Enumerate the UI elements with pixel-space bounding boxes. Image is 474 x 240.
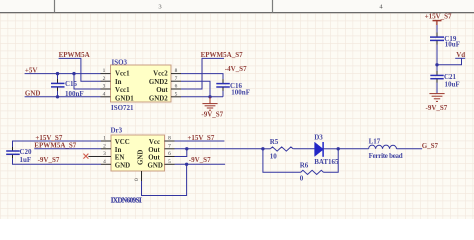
svg-text:GND: GND: [25, 89, 41, 97]
svg-text:Ferrite bead: Ferrite bead: [369, 152, 403, 160]
IC ISO3 body: [111, 65, 172, 102]
wire pin6 join: [175, 149, 187, 157]
svg-text:-4V_S7: -4V_S7: [225, 65, 247, 73]
junction Vd branch: [435, 63, 438, 66]
ISO3 pin 1: [101, 68, 111, 74]
wire pin8 to C16: [181, 74, 223, 80]
svg-text:Dr3: Dr3: [111, 127, 123, 135]
ISO3 pin 6: [171, 84, 181, 90]
wire pin8 +15V_S7: [175, 140, 225, 142]
svg-text:8: 8: [168, 136, 171, 142]
wire pad to -9V rail: [142, 164, 187, 195]
svg-text:-9V_S7: -9V_S7: [426, 104, 448, 112]
wire +5V to pin3: [74, 74, 101, 89]
Dr3 pin 5: [165, 159, 175, 165]
junction D3/R6 merge: [337, 147, 340, 150]
svg-text:5: 5: [175, 91, 178, 97]
Dr3 pin 4: [101, 159, 111, 165]
svg-text:In: In: [115, 79, 122, 86]
svg-text:8: 8: [175, 68, 178, 74]
svg-text:EPWM5A_S7: EPWM5A_S7: [201, 51, 244, 59]
power bar +15V_S7: [433, 21, 442, 25]
svg-text:Out: Out: [148, 155, 160, 162]
svg-text:Out: Out: [148, 147, 160, 154]
svg-text:1: 1: [103, 136, 106, 142]
capacitor C16: [216, 79, 230, 97]
wire pin7 down to gnd rail: [181, 81, 210, 97]
capacitor C21: [430, 65, 443, 93]
svg-text:10uF: 10uF: [445, 80, 460, 88]
svg-text:IXDN609SI: IXDN609SI: [111, 196, 142, 204]
svg-text:6: 6: [175, 84, 178, 90]
Dr3 pin 6: [165, 151, 175, 157]
svg-text:6: 6: [168, 151, 171, 157]
svg-text:GND1: GND1: [115, 96, 134, 103]
Dr3 pin 0 pad: [134, 171, 142, 181]
capacitor C15: [51, 74, 65, 97]
wire pin6 to EPWM5A_S7: [181, 58, 224, 89]
junction R5/R6 split: [261, 147, 264, 150]
wire pin7 output long run: [175, 148, 263, 150]
svg-text:VCC: VCC: [115, 139, 130, 146]
junction +5V pin3 branch: [72, 72, 75, 75]
svg-text:Vd: Vd: [456, 51, 465, 59]
svg-text:2: 2: [103, 76, 106, 82]
svg-text:0: 0: [134, 178, 140, 181]
ISO3 pin 2: [101, 76, 111, 82]
svg-text:5: 5: [168, 159, 171, 165]
Dr3 pin 3: [101, 151, 111, 157]
junction C15 bottom: [56, 95, 59, 98]
svg-text:10: 10: [270, 153, 278, 161]
svg-text:Vcc1: Vcc1: [115, 87, 130, 94]
svg-text:D3: D3: [314, 134, 323, 142]
svg-text:GND: GND: [138, 150, 145, 165]
power ground -9V_S7 (ISO3): [202, 97, 217, 110]
svg-text:-9V_S7: -9V_S7: [38, 156, 60, 164]
svg-text:Vcc2: Vcc2: [153, 71, 168, 78]
svg-text:EPWM5A: EPWM5A: [59, 51, 90, 59]
svg-text:GND: GND: [147, 162, 162, 169]
resistor R6: [263, 149, 338, 175]
svg-text:ISO721: ISO721: [111, 104, 134, 112]
Dr3 pin 7: [165, 143, 175, 149]
svg-text:7: 7: [175, 76, 178, 82]
svg-text:EPWM5A_S7: EPWM5A_S7: [34, 141, 77, 149]
Dr3 pin 8: [165, 136, 175, 142]
svg-text:C15: C15: [65, 80, 78, 88]
svg-text:C20: C20: [20, 148, 33, 156]
svg-text:+15V_S7: +15V_S7: [425, 13, 452, 21]
ISO3 pin 3: [101, 84, 111, 90]
svg-text:GND2: GND2: [149, 79, 168, 86]
svg-text:L17: L17: [369, 138, 381, 146]
diode D3: [315, 142, 339, 157]
wire pin5 gnd rail: [181, 96, 223, 98]
svg-text:3: 3: [103, 84, 106, 90]
junction C15 top: [56, 72, 59, 75]
net +5V wire: [25, 73, 101, 75]
no-connect X on pin 3: [83, 154, 88, 159]
svg-text:In: In: [115, 147, 122, 154]
svg-text:100nF: 100nF: [65, 90, 84, 98]
wire +15V to C19: [436, 25, 438, 37]
wire stub pin 3: [88, 156, 101, 158]
svg-text:10uF: 10uF: [445, 41, 460, 49]
Dr3 pin 2: [101, 143, 111, 149]
svg-text:EN: EN: [115, 155, 125, 162]
svg-text:7: 7: [168, 143, 171, 149]
svg-text:3: 3: [103, 151, 106, 157]
svg-text:-9V_S7: -9V_S7: [201, 111, 223, 119]
border tick 1: [54, 0, 56, 13]
svg-text:100nF: 100nF: [231, 88, 250, 96]
svg-text:1: 1: [103, 68, 106, 74]
border tick 2: [272, 0, 274, 13]
sheet border line: [0, 12, 474, 14]
svg-text:ISO3: ISO3: [112, 59, 128, 67]
svg-text:R6: R6: [300, 161, 309, 169]
IC Dr3 body: [111, 135, 165, 171]
svg-text:G_S7: G_S7: [422, 142, 439, 150]
ISO3 pin 5: [171, 91, 181, 97]
resistor R5: [263, 147, 315, 151]
capacitor C20: [6, 141, 101, 164]
svg-text:BAT165: BAT165: [314, 158, 339, 166]
ISO3 pin 4: [101, 91, 111, 97]
svg-text:Vcc1: Vcc1: [115, 71, 130, 78]
svg-text:4: 4: [103, 159, 106, 165]
svg-text:2: 2: [103, 143, 106, 149]
svg-text:0: 0: [300, 175, 304, 183]
ISO3 pin 7: [171, 76, 181, 82]
net GND wire: [25, 96, 101, 98]
junction gnd rail: [208, 95, 211, 98]
svg-text:Out: Out: [156, 87, 168, 94]
svg-text:1uF: 1uF: [20, 156, 32, 164]
svg-text:-9V_S7: -9V_S7: [189, 156, 211, 164]
wire Vd branch: [437, 58, 465, 65]
power ground -9V_S7 (top right): [429, 94, 444, 102]
svg-text:GND: GND: [115, 162, 130, 169]
svg-text:R5: R5: [270, 138, 279, 146]
inductor L17 ferrite bead: [338, 145, 422, 149]
capacitor C19: [430, 33, 444, 65]
wire pin5 -9V_S7: [175, 163, 226, 165]
wire EPWM5A to pin2: [59, 58, 101, 81]
svg-text:4: 4: [103, 91, 106, 97]
junction out pins: [185, 147, 188, 150]
Dr3 pin 1: [101, 136, 111, 142]
wire EPWM5A_S7 to pin2: [34, 148, 101, 150]
junction pad net: [185, 163, 188, 166]
svg-text:+5V: +5V: [25, 66, 38, 74]
ISO3 pin 8: [171, 68, 181, 74]
svg-text:Vcc: Vcc: [149, 139, 160, 146]
svg-text:GND2: GND2: [149, 96, 168, 103]
